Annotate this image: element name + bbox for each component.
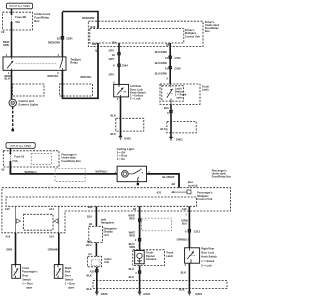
svg-text:BLK: BLK bbox=[5, 77, 10, 81]
node HOT AT ALL TIMES (passenger) bbox=[6, 143, 35, 149]
svg-text:Actuator: Actuator bbox=[146, 257, 157, 261]
svg-text:A16: A16 bbox=[5, 235, 10, 239]
svg-text:Passenger's: Passenger's bbox=[22, 270, 38, 274]
faint dashed box (option) bbox=[142, 218, 172, 231]
svg-text:Fuse 9B: Fuse 9B bbox=[15, 15, 26, 19]
svg-text:BLK: BLK bbox=[129, 267, 134, 271]
ground G601 bbox=[188, 292, 191, 296]
svg-text:A4: A4 bbox=[88, 252, 92, 256]
front passenger's door switch bbox=[12, 265, 21, 279]
navigation display unit (dashed) bbox=[89, 226, 103, 242]
internal diode (right) bbox=[54, 219, 58, 223]
dashed box under relay (left) bbox=[13, 84, 45, 96]
svg-text:Control Unit: Control Unit bbox=[185, 34, 200, 38]
svg-text:GRY: GRY bbox=[109, 72, 115, 76]
svg-text:1 = Unlock: 1 = Unlock bbox=[201, 259, 215, 263]
svg-text:BLK: BLK bbox=[179, 288, 184, 292]
svg-text:Unit: Unit bbox=[104, 260, 109, 264]
junction dot bbox=[12, 129, 15, 132]
trunk latch (lower, dashed) bbox=[133, 250, 165, 266]
latch switch (dashed) bbox=[162, 84, 184, 104]
right rear door switch bbox=[54, 265, 63, 279]
svg-text:RED: RED bbox=[129, 216, 135, 220]
svg-text:Q8: Q8 bbox=[166, 42, 170, 46]
ground G502 bbox=[95, 292, 98, 296]
wire fuse 16 to ceiling light, WHT/BLU bbox=[10, 162, 117, 174]
fuse 16 bbox=[10, 148, 25, 163]
svg-text:Latch: Latch bbox=[166, 254, 173, 258]
node HOT AT ALL TIMES (top) bbox=[6, 3, 32, 9]
svg-text:B16: B16 bbox=[91, 25, 96, 29]
svg-text:Ceiling Light: Ceiling Light bbox=[117, 147, 134, 151]
wire latch to G601, BLU/BLK bbox=[170, 104, 172, 137]
passenger's under-dash box continued (outer stepped dashed box) bbox=[2, 188, 231, 233]
svg-text:A13: A13 bbox=[182, 207, 187, 211]
svg-text:Rear: Rear bbox=[65, 270, 71, 274]
driver's under-dash fuse/relay box (outer, dashed) bbox=[88, 21, 203, 46]
twilight relay bbox=[3, 57, 66, 70]
connector C313 pin 6 bbox=[188, 229, 191, 232]
svg-text:Front: Front bbox=[22, 266, 29, 270]
connector pin 18 bbox=[118, 52, 121, 55]
connector C555 pin 10 bbox=[169, 66, 172, 69]
connector C551 pin 13 bbox=[169, 56, 172, 59]
svg-text:2 = Lock: 2 = Lock bbox=[201, 263, 212, 267]
dashed box on BLK wire bbox=[116, 118, 144, 131]
svg-text:HOT AT ALL TIMES: HOT AT ALL TIMES bbox=[10, 145, 31, 148]
wire audio unit to G502, BLK bbox=[96, 267, 98, 292]
ground G401 bbox=[119, 136, 122, 140]
right rear door lock knob switch bbox=[185, 248, 200, 263]
svg-text:B4: B4 bbox=[89, 222, 93, 226]
svg-text:C284: C284 bbox=[66, 36, 73, 40]
svg-text:GRY: GRY bbox=[109, 49, 115, 53]
ground G501 bbox=[138, 292, 141, 296]
svg-text:RED/YEL: RED/YEL bbox=[48, 74, 60, 78]
wire ceiling light to B2, BLU/WHT bbox=[147, 174, 180, 188]
svg-text:Right: Right bbox=[65, 266, 72, 270]
svg-text:Door: Door bbox=[65, 274, 71, 278]
svg-text:BLK: BLK bbox=[181, 270, 186, 274]
svg-text:HOT AT ALL TIMES: HOT AT ALL TIMES bbox=[9, 5, 30, 8]
svg-text:RED/YEL: RED/YEL bbox=[81, 75, 93, 79]
svg-text:Box: Box bbox=[205, 29, 210, 33]
svg-text:G401: G401 bbox=[124, 136, 131, 140]
ground G601 (trunk latch) bbox=[169, 137, 172, 141]
svg-text:Control Unit: Control Unit bbox=[197, 197, 212, 201]
svg-text:1 = Door: 1 = Door bbox=[65, 281, 75, 285]
under-hood fuse/relay box bbox=[3, 12, 33, 30]
svg-text:Door: Door bbox=[22, 274, 28, 278]
svg-text:Door Lock: Door Lock bbox=[201, 251, 214, 255]
wire knob switch to G601, BLK bbox=[188, 263, 190, 292]
svg-text:GRN: GRN bbox=[3, 43, 9, 47]
svg-text:Switch: Switch bbox=[22, 278, 31, 282]
svg-text:BLU/GRN: BLU/GRN bbox=[155, 50, 167, 54]
svg-text:C564: C564 bbox=[122, 63, 129, 67]
junction dot under ceiling light bbox=[137, 183, 139, 185]
svg-text:G601: G601 bbox=[176, 137, 183, 141]
svg-text:A21: A21 bbox=[157, 191, 162, 195]
svg-text:Switch: Switch bbox=[65, 278, 74, 282]
svg-text:BLU: BLU bbox=[182, 221, 187, 225]
svg-text:open: open bbox=[26, 286, 33, 289]
svg-text:B21: B21 bbox=[88, 205, 93, 209]
svg-text:A20: A20 bbox=[90, 270, 95, 274]
left rear door lock knob switch bbox=[114, 84, 129, 97]
svg-text:BLK: BLK bbox=[86, 274, 91, 278]
svg-text:C9: C9 bbox=[1, 30, 5, 34]
svg-text:15A: 15A bbox=[15, 20, 20, 24]
internal dashed sub-box bbox=[24, 214, 53, 230]
svg-text:Fuse/Relay Box: Fuse/Relay Box bbox=[62, 159, 82, 163]
svg-text:open: open bbox=[176, 97, 183, 100]
svg-text:B9: B9 bbox=[112, 40, 116, 44]
svg-text:Navigation: Navigation bbox=[101, 221, 115, 225]
driver's multiplex control unit (inner, dashed) bbox=[90, 29, 184, 43]
audio unit (dashed) bbox=[88, 256, 102, 267]
label Under-hood Fuse/Relay Box bbox=[34, 12, 50, 23]
connector pin 4 bbox=[138, 271, 141, 274]
svg-text:A14: A14 bbox=[49, 207, 54, 211]
internal wire A15 bbox=[15, 206, 17, 233]
svg-text:2 = Lock: 2 = Lock bbox=[130, 97, 141, 101]
passenger's under-dash fuse/relay box (dashed) bbox=[3, 151, 59, 167]
connector pin 6 bbox=[170, 110, 173, 113]
svg-text:GRY: GRY bbox=[109, 57, 115, 61]
svg-text:A22: A22 bbox=[92, 42, 97, 46]
svg-text:C313: C313 bbox=[194, 229, 201, 233]
svg-text:7.5A: 7.5A bbox=[12, 159, 18, 163]
svg-text:2 = On: 2 = On bbox=[117, 157, 125, 161]
dashed box on wire bbox=[167, 121, 196, 132]
connector C564 pin 8 bbox=[118, 64, 121, 67]
svg-text:BLK: BLK bbox=[111, 132, 116, 136]
svg-text:G601: G601 bbox=[195, 292, 202, 296]
svg-text:Unit: Unit bbox=[104, 233, 109, 237]
svg-text:Q7: Q7 bbox=[95, 49, 99, 53]
dashed continuation wire below lamp bbox=[12, 107, 14, 129]
svg-text:A15: A15 bbox=[5, 207, 10, 211]
lamp Interior and Exterior Lights bbox=[9, 99, 16, 106]
wire relay pin4 up through C284 to B16 bbox=[61, 12, 63, 57]
connector on trunk wire bbox=[138, 219, 141, 222]
svg-text:Fuse 16: Fuse 16 bbox=[14, 154, 24, 158]
wire A14 to right rear door switch, GRN/WHT bbox=[58, 233, 60, 265]
svg-text:BLU/WHT: BLU/WHT bbox=[163, 175, 175, 179]
wire relay pin1 to interior lamp, RED/BLK bbox=[11, 70, 13, 99]
wire fuse to relay pin 2 bbox=[11, 22, 13, 57]
svg-text:WHT/BLU: WHT/BLU bbox=[25, 170, 37, 174]
wire knob switch to G401, BLK bbox=[120, 97, 122, 136]
svg-text:BLU/GRN: BLU/GRN bbox=[155, 61, 167, 65]
wire actuator to G501, BLK bbox=[139, 266, 141, 292]
svg-text:RED/GRN: RED/GRN bbox=[48, 41, 60, 45]
svg-text:Box: Box bbox=[34, 19, 40, 23]
wire navigation to audio unit, BLU bbox=[95, 243, 97, 257]
svg-text:GRN: GRN bbox=[6, 248, 12, 252]
connector pin 2 bbox=[138, 238, 141, 241]
svg-text:Relay: Relay bbox=[70, 61, 78, 65]
svg-text:BLK: BLK bbox=[129, 275, 134, 279]
fuse 9B bbox=[11, 13, 26, 24]
svg-text:B10: B10 bbox=[87, 239, 92, 243]
svg-text:Latch: Latch bbox=[202, 88, 209, 92]
svg-text:1 = Door: 1 = Door bbox=[22, 281, 32, 285]
wire B1 to trunk opener actuator, WHT/RED bbox=[139, 206, 141, 250]
svg-text:Fuse/Relay Box: Fuse/Relay Box bbox=[212, 175, 232, 179]
svg-text:RED: RED bbox=[129, 233, 135, 237]
svg-text:Knob Switch: Knob Switch bbox=[201, 255, 217, 259]
wire A13 to right rear knob switch, GRN/BLU bbox=[188, 206, 190, 248]
wire hot to fuse 9B bbox=[11, 9, 13, 14]
svg-text:BLU/GRN: BLU/GRN bbox=[155, 71, 167, 75]
svg-text:GRN/BLU: GRN/BLU bbox=[177, 237, 189, 241]
svg-text:A14: A14 bbox=[49, 235, 54, 239]
svg-text:WHT/BLU: WHT/BLU bbox=[95, 169, 107, 173]
svg-text:0 = Off: 0 = Off bbox=[117, 150, 125, 154]
wire A16 to front passenger's door switch, GRN bbox=[15, 233, 17, 265]
ceiling light unit bbox=[117, 166, 146, 183]
svg-text:(cont'd): (cont'd) bbox=[188, 183, 198, 187]
dashed sub-box in fuse box bbox=[31, 154, 51, 165]
svg-text:BLK: BLK bbox=[86, 287, 91, 291]
svg-text:G501: G501 bbox=[143, 292, 150, 296]
passenger's multiplex control unit (inner dashed) bbox=[6, 197, 197, 206]
svg-text:1 = Door: 1 = Door bbox=[117, 154, 127, 158]
internal diode (left) bbox=[16, 219, 20, 223]
svg-text:RED/GRN: RED/GRN bbox=[82, 16, 94, 20]
svg-text:BLK: BLK bbox=[161, 127, 166, 131]
wire relay pin3 elbow to driver's MPX A22, RED/YEL bbox=[62, 43, 98, 98]
wire B21 to navigation unit, BLU bbox=[95, 206, 97, 226]
svg-text:GRN/WHT: GRN/WHT bbox=[48, 248, 61, 252]
svg-text:Exterior Lights: Exterior Lights bbox=[19, 103, 39, 107]
connector C284 pin 22 bbox=[61, 36, 64, 39]
svg-text:open: open bbox=[68, 286, 75, 289]
internal wire A14 bbox=[58, 206, 60, 233]
svg-text:Right Rear: Right Rear bbox=[201, 247, 214, 251]
svg-text:BLU: BLU bbox=[164, 106, 169, 110]
trunk latch assembly (dashed) bbox=[160, 84, 200, 104]
svg-text:B2: B2 bbox=[172, 182, 176, 186]
svg-text:C551: C551 bbox=[175, 56, 182, 60]
svg-text:BLU: BLU bbox=[87, 215, 92, 219]
svg-text:B1: B1 bbox=[133, 207, 137, 211]
long dashed junction box (bottom) bbox=[93, 281, 227, 289]
svg-text:G502: G502 bbox=[101, 292, 108, 296]
svg-text:ORN: ORN bbox=[129, 245, 135, 249]
svg-text:BLU: BLU bbox=[86, 243, 91, 247]
dashed box on feed wire bbox=[55, 169, 85, 182]
svg-text:C555: C555 bbox=[175, 66, 182, 70]
svg-text:BLK: BLK bbox=[111, 113, 116, 117]
connector A20 bbox=[95, 269, 98, 272]
trunk opener actuator bbox=[135, 251, 145, 264]
dashed box under relay (right) bbox=[60, 84, 93, 96]
